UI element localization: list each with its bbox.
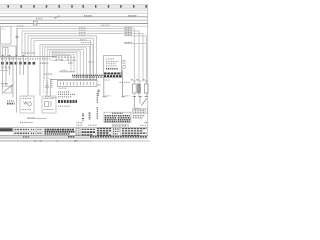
connector contact K91	[123, 65, 125, 68]
wire 58c	[25, 33, 143, 56]
bus wire 50	[0, 16, 148, 18]
switch S2 with arrow	[2, 85, 13, 93]
revision letters column	[77, 123, 84, 126]
italic pointer label	[120, 81, 131, 83]
label above title block left	[20, 122, 33, 124]
title block sheet cell	[113, 129, 120, 134]
pin id column b	[89, 113, 91, 120]
terminal X1 wire number labels	[1, 62, 35, 65]
title block rows left	[15, 130, 43, 134]
S3 switch body	[134, 97, 147, 109]
N1 bold heading band	[104, 74, 121, 77]
label 1.2 near dots	[68, 62, 73, 64]
terminal X1 pin labels row	[1, 58, 50, 60]
wire drop to X2 pin 2	[93, 38, 95, 79]
mid bundle wire labels	[79, 28, 86, 40]
label above X2	[61, 69, 67, 71]
arrow end label	[105, 95, 111, 97]
relay K1 enclosure	[0, 27, 11, 45]
footer annotation row	[23, 136, 147, 138]
sheet number 1A	[145, 122, 148, 124]
node A.05 label	[17, 25, 24, 27]
label above loop bundle	[81, 42, 92, 44]
drawing number tags 1O 1P	[112, 124, 128, 127]
arrow end label 2	[124, 95, 130, 97]
right bundle wire labels	[125, 27, 133, 42]
bus wire 30	[0, 9, 148, 11]
relay coil K4	[138, 84, 141, 96]
connector pin symbol	[98, 90, 100, 97]
wire drop to K4	[138, 31, 140, 84]
wire drop stub	[142, 33, 144, 81]
relay K3 box	[42, 96, 56, 113]
wire drop to X2 pin 1	[96, 36, 98, 80]
title block name cell	[82, 129, 96, 135]
A1 note row	[58, 105, 70, 107]
control unit A1 pin header	[58, 81, 98, 89]
bus wire 58	[10, 25, 148, 27]
S3 connector row	[133, 95, 148, 97]
wire label GE on bus 50 right	[128, 15, 137, 17]
A1 annotation text block	[58, 92, 75, 97]
column ruler band	[0, 4, 148, 8]
junction dots row 1	[52, 57, 74, 58]
wire 56a	[124, 43, 146, 45]
wire drops from X1	[3, 57, 48, 113]
terminal X1 crimp marks	[2, 55, 25, 56]
vertical designation text	[96, 93, 98, 119]
label under V1	[45, 96, 50, 98]
jumper line left	[0, 70, 8, 72]
junction tick marks on drops	[131, 80, 148, 81]
S2 label	[2, 83, 9, 85]
wire W12 to starter with arrow	[49, 80, 56, 98]
connector strip X2 wire colour text row	[72, 75, 103, 77]
junction rings on drops	[2, 67, 11, 69]
bus wire 15	[0, 12, 148, 14]
bend bundle pin labels	[22, 52, 36, 54]
page right border	[147, 4, 149, 136]
lamp E2	[144, 84, 148, 96]
title block description cell	[45, 130, 75, 134]
pin number label	[97, 84, 101, 86]
connector strip X2 bottom line	[50, 79, 97, 81]
page frame bottom	[0, 137, 148, 139]
wire from N1 down with arrow	[103, 78, 107, 97]
title block issuer cell (dark)	[0, 128, 13, 131]
label under M1	[28, 117, 47, 119]
bus 58 wire label	[101, 24, 110, 26]
pin id column a	[82, 114, 84, 121]
relay designation N50	[7, 101, 15, 104]
wire W9 down with arrow	[121, 70, 125, 97]
viewer status bar	[0, 140, 150, 142]
small id label	[89, 61, 94, 63]
wire numbers right part	[40, 62, 49, 64]
title block project cell	[122, 129, 147, 136]
connector strip X2 top line	[59, 71, 75, 73]
connector contact K90	[123, 60, 125, 63]
wire 31d	[34, 41, 91, 57]
lamp E1	[133, 84, 137, 96]
legend table T1	[104, 112, 131, 122]
title block rev cell	[76, 129, 80, 135]
bus wire 31	[0, 19, 148, 21]
switch contact S1 on bus 50	[54, 16, 60, 19]
wire 31c	[31, 38, 94, 56]
nested wire loop bundle	[40, 45, 93, 80]
note under band	[105, 79, 111, 81]
title block frame	[0, 127, 148, 136]
label near X1 left	[56, 58, 63, 60]
second bus with junction dots	[50, 60, 76, 61]
wire 56 to lamp E2	[124, 36, 146, 84]
center verticals to strip	[53, 51, 68, 60]
notes box N1	[104, 56, 122, 78]
wire drop to E1	[133, 29, 135, 84]
label above title block mid	[88, 124, 97, 126]
title block doc number cell	[97, 129, 111, 136]
terminal bus X1	[0, 56, 57, 58]
label above title block right	[140, 124, 146, 126]
motor M1 box	[20, 96, 34, 113]
relay K2 enclosure	[0, 46, 16, 57]
bus wire X	[0, 23, 148, 25]
A1 bold part number row	[58, 100, 77, 103]
label fragment left	[23, 95, 27, 97]
cable note right of table	[133, 116, 145, 118]
wire 58b to relay coil K4	[22, 31, 139, 57]
wire drop W1 with junction	[16, 28, 18, 57]
S3 label box rows	[133, 109, 148, 114]
wire drop to X2 pin 3	[90, 41, 92, 80]
fuse F1 rating label	[36, 18, 43, 20]
wire 15a to lamp E1	[17, 28, 134, 30]
wire label BL on bus 50	[84, 15, 92, 17]
wire 31b	[28, 36, 97, 57]
fuse F1 on bus X	[33, 21, 38, 25]
diode V1 dashed box	[44, 74, 54, 96]
